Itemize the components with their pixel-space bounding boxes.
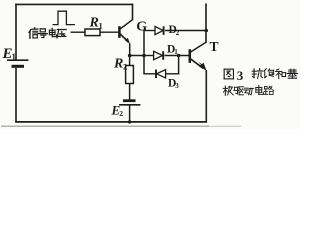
resistor R1 bbox=[85, 29, 100, 36]
bottom rail bbox=[15, 121, 207, 123]
svg-text:1: 1 bbox=[12, 52, 17, 62]
wire signal to R1 bbox=[71, 31, 86, 33]
wire R2 top lead bbox=[129, 56, 131, 66]
wire D1 to base of T bbox=[165, 55, 190, 57]
svg-text:3: 3 bbox=[237, 68, 244, 83]
pulse waveform bbox=[53, 11, 76, 24]
battery E1 bbox=[7, 59, 29, 61]
transistor T bbox=[189, 49, 192, 63]
wire left rail upper bbox=[15, 4, 17, 60]
svg-text:G: G bbox=[136, 20, 147, 35]
wire D3 right vertical bbox=[178, 56, 180, 75]
wire D2 row left bbox=[144, 30, 155, 32]
wire R1 to base of G bbox=[100, 31, 119, 33]
svg-text:R: R bbox=[113, 57, 123, 72]
caption line1: 图3 抗饱和基 bbox=[224, 69, 233, 79]
battery E2 bbox=[123, 99, 136, 102]
node junction at emitter/R2 bbox=[128, 54, 132, 58]
svg-text:2: 2 bbox=[123, 62, 127, 72]
node junction D2/collector bbox=[204, 29, 208, 33]
node junction diode-bank left bbox=[142, 54, 146, 58]
wire D2 to collector line bbox=[165, 30, 206, 32]
transistor G bbox=[118, 26, 121, 38]
svg-text:2: 2 bbox=[119, 109, 123, 118]
svg-text:R: R bbox=[89, 16, 99, 31]
label 信号电压 signal voltage bbox=[29, 28, 38, 38]
wire left rail lower bbox=[15, 68, 17, 123]
svg-text:1: 1 bbox=[99, 21, 103, 31]
wire emitter down to node bbox=[129, 43, 131, 55]
svg-text:T: T bbox=[210, 39, 219, 54]
svg-text:3: 3 bbox=[175, 82, 179, 90]
node junction D3 right bbox=[177, 54, 181, 58]
top rail bbox=[15, 3, 133, 5]
wire node to diode bank bbox=[130, 55, 144, 57]
wire T emitter down to bottom rail bbox=[205, 70, 207, 123]
resistor R2 bbox=[126, 66, 134, 84]
diode D3 (reversed) bbox=[157, 70, 166, 78]
wire E2 to bottom rail bbox=[129, 105, 131, 122]
diode D1 bbox=[154, 51, 163, 59]
caption line2: 极驱动电路 bbox=[223, 86, 233, 95]
wire D1 row left bbox=[144, 55, 154, 57]
wire diode bank left vertical bbox=[143, 30, 145, 75]
wire D3 row bbox=[144, 73, 155, 75]
wire R2 bottom lead bbox=[129, 84, 131, 101]
wire scan ghost under bottom rail bbox=[1, 125, 209, 127]
diode D2 bbox=[155, 26, 163, 34]
